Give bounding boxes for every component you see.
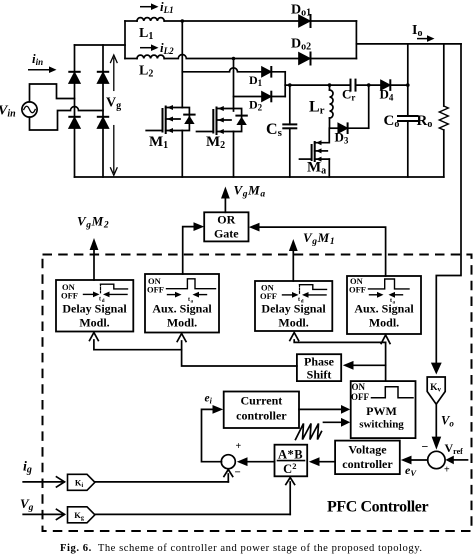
block Phase Shift (297, 354, 341, 381)
block A*B/C2 (275, 445, 308, 477)
Aux block 1 icon (167, 279, 216, 298)
wire D4 cathode to Co node (390, 84, 408, 86)
bridge rectifier diode bottom-right (98, 117, 108, 128)
wire OR gate right input from Aux Signal Modl 2 (249, 223, 386, 276)
diode Do2 (299, 53, 311, 65)
Vg input line through Kg (23, 509, 290, 519)
wire sawtooth to PWM (324, 418, 351, 427)
bridge rectifier diode bottom-left (69, 117, 79, 128)
wire L2 branch left segment (125, 58, 137, 60)
Ki gain block pentagon (68, 474, 95, 490)
wire ig feedback up into summing junction 1 (224, 470, 233, 482)
wire L1 branch left segment (125, 20, 137, 22)
wire D1 branch from node A (hops over node B vertical) (182, 68, 262, 72)
VgMa output arrow from OR gate (221, 187, 230, 213)
wire Current controller output to PWM (299, 405, 350, 414)
wire M2 source to bottom rail (233, 132, 235, 178)
PFC controller dashed boundary box (43, 255, 472, 532)
wire bridge top rail to inductor branch node (75, 44, 126, 46)
capacitor Cs (283, 85, 296, 177)
wire D2 cathode to snubber node (271, 96, 285, 98)
inductor L1 (137, 18, 164, 21)
wire D1 cathode to snubber node (271, 71, 285, 73)
inductor L2 (137, 55, 164, 58)
wire Vg feedforward up into A*B bottom (286, 478, 295, 515)
VgM2 arrow from Delay Signal Modl 1 (90, 238, 99, 280)
capacitor Cr (351, 80, 382, 91)
diode D2 (262, 92, 271, 102)
wire vertical between Cr-D4 line and D3 line (368, 85, 370, 128)
svg-text:OFF: OFF (349, 285, 366, 295)
svg-text:PFC Controller: PFC Controller (327, 499, 428, 516)
resistor Ro (439, 44, 448, 177)
node A junction on L1 line (181, 19, 185, 23)
wire Kv to summing junction 2 (435, 404, 437, 440)
svg-text:OFF: OFF (260, 291, 277, 301)
M2 body diode (234, 109, 247, 132)
OR gate box (204, 212, 248, 241)
svg-text:+: + (236, 441, 242, 452)
svg-text:Phase: Phase (304, 355, 335, 369)
svg-text:A*B: A*B (278, 447, 303, 461)
diode D3 (338, 123, 347, 133)
svg-text:Aux. Signal: Aux. Signal (152, 302, 212, 316)
block PWM switching (351, 381, 416, 438)
svg-text:controller: controller (236, 409, 287, 423)
block Delay Signal Modl 2 (255, 281, 332, 331)
wire D2 branch from node B (234, 96, 263, 98)
svg-text:Voltage: Voltage (348, 443, 387, 457)
wire Voltage controller output to A*B (309, 457, 335, 466)
wire M1 source to bottom rail (181, 131, 183, 178)
wire OR gate left input from Aux Signal Modl 1 (183, 222, 205, 274)
svg-text:Kv: Kv (430, 383, 441, 394)
svg-text:OR: OR (217, 213, 235, 227)
node B junction on L2 line (232, 57, 236, 61)
wire source bottom terminal to bridge right leg midpoint (hops over left leg) (30, 107, 104, 131)
node B vertical wire to M2 drain (233, 59, 235, 112)
svg-text:switching: switching (359, 418, 404, 430)
sawtooth ramp symbol (296, 424, 322, 440)
transistor Ma (300, 128, 330, 177)
VgM1 arrow from Delay Signal Modl 2 (289, 239, 298, 281)
svg-text:ON: ON (352, 382, 366, 392)
svg-text:Fig. 6.The scheme of controlle: Fig. 6.The scheme of controller and powe… (60, 543, 423, 554)
Vg arrow down (111, 126, 118, 176)
Aux block 2 icon (369, 279, 410, 298)
Kv gain block pentagon (427, 377, 445, 404)
svg-text:Modl.: Modl. (369, 316, 399, 330)
svg-text:Modl.: Modl. (167, 316, 197, 330)
block Current controller (224, 392, 299, 429)
wire Vo feedback down the right side (436, 44, 461, 366)
junction on snubber rail at x=368.7 (367, 83, 371, 87)
label iL1 with arrow (140, 3, 159, 10)
svg-text:+: + (444, 465, 450, 476)
wire ei line: sum output up to Current controller (202, 405, 224, 462)
wire Aux1/Delay1 feed from Phase Shift output (90, 333, 297, 367)
svg-text:−: − (235, 467, 241, 479)
wire A*B output to summing junction 1 (237, 457, 275, 466)
svg-text:OFF: OFF (351, 392, 369, 402)
wire vertical joining L1 and L2 branch (124, 21, 126, 59)
svg-text:controller: controller (342, 457, 393, 471)
Vg arrow up (111, 55, 118, 90)
wire snubber rail to Cr and D4 (285, 84, 350, 86)
wire Phase Shift input from PWM line (343, 361, 386, 370)
wire PWM top to Aux2/Delay2 feed (290, 333, 390, 382)
bridge left leg (74, 45, 76, 177)
svg-text:Delay Signal: Delay Signal (62, 302, 127, 316)
bridge rectifier diode top-left (69, 72, 79, 83)
wire snubber node vertical (284, 72, 286, 97)
PWM icon pulse (372, 387, 414, 398)
wire output rail (356, 43, 461, 45)
inductor Lr vertical (330, 85, 334, 128)
junction snubber rail / Lr (328, 83, 332, 87)
label iL2 with arrow (140, 44, 159, 51)
block Voltage controller (335, 441, 400, 475)
junction D4 line / Co (406, 83, 410, 87)
wire Do1 cathode to output node (311, 20, 357, 22)
svg-text:PWM: PWM (366, 404, 397, 418)
summing junction 1 (current loop) (221, 455, 235, 469)
iin arrow (28, 66, 57, 73)
wire output node vertical (355, 21, 357, 59)
wire D3 branch (330, 127, 339, 129)
svg-text:OFF: OFF (61, 291, 78, 301)
block Aux Signal Modl 1 (145, 274, 219, 333)
svg-text:OFF: OFF (147, 285, 164, 295)
junction snubber rail / Cs (288, 83, 292, 87)
svg-text:Aux. Signal: Aux. Signal (354, 302, 414, 316)
Delay block 1 icon (84, 284, 128, 297)
wire L1 output to Do1 anode (164, 20, 299, 22)
svg-text:Current: Current (241, 394, 283, 408)
transistor M1 (146, 105, 182, 133)
diode D4 (381, 80, 390, 90)
Kg gain block pentagon (68, 507, 95, 523)
A*B divider line (278, 460, 305, 462)
wire summing junction 2 to Voltage controller (401, 456, 428, 465)
capacitor Co (398, 44, 418, 177)
arrowhead into Kv (431, 363, 442, 375)
bridge right leg (102, 45, 104, 177)
svg-text:Modl.: Modl. (79, 316, 109, 330)
M1 body diode (182, 108, 194, 131)
bridge rectifier diode top-right (98, 72, 108, 83)
svg-text:Modl.: Modl. (278, 316, 308, 330)
svg-text:Gate: Gate (214, 227, 239, 241)
wire Do2 cathode to output node (311, 58, 357, 60)
diode D1 (262, 67, 271, 77)
svg-text:Shift: Shift (307, 368, 332, 382)
wire L2 output to Do2 anode (hops over node A vertical) (164, 55, 299, 59)
wire source top terminal to bridge left leg midpoint (30, 84, 75, 102)
diode Do1 (299, 15, 311, 27)
Delay block 2 icon (283, 285, 327, 298)
block Aux Signal Modl 2 (347, 276, 421, 334)
svg-text:−: − (422, 440, 429, 454)
AC source Vin (22, 102, 37, 117)
node A vertical wire to M1 drain (181, 21, 183, 108)
Vref input (445, 456, 467, 465)
transistor M2 (197, 106, 234, 134)
summing junction 2 (voltage loop) (428, 451, 445, 468)
svg-text:Delay Signal: Delay Signal (261, 302, 326, 316)
power stage bottom rail (75, 176, 444, 178)
ig input line through Ki (23, 477, 228, 487)
wire D3 cathode to Cr/D4 vertical (348, 127, 369, 129)
block Delay Signal Modl 1 (56, 280, 133, 332)
